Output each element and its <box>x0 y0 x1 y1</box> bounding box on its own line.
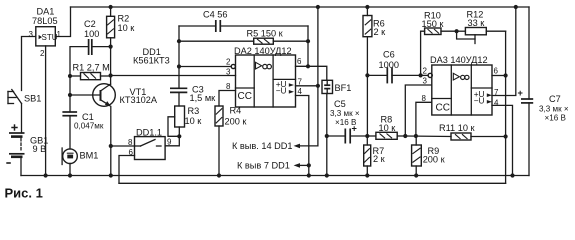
wire BM1 to ground rail <box>69 164 71 176</box>
junction R3 bottom / wiper / DD1.1 pin9 <box>177 134 181 138</box>
svg-text:6: 6 <box>494 67 499 76</box>
junction R9 at ground rail <box>414 173 418 177</box>
junction R4 at ground rail <box>217 173 221 177</box>
svg-text:3: 3 <box>226 68 231 77</box>
junction DA2 pin2 on C4-C3 column <box>177 64 181 68</box>
capacitor C5 3,3uF <box>327 99 368 144</box>
svg-text:DD1.1: DD1.1 <box>136 128 162 138</box>
svg-text:C7: C7 <box>549 94 561 104</box>
wire DD1.1 pin9 to R3 bottom <box>165 136 179 146</box>
wire C4/C3 column <box>178 26 180 88</box>
svg-text:×16 В: ×16 В <box>545 114 566 123</box>
svg-text:C6: C6 <box>383 50 395 60</box>
capacitor C1 0,047uF <box>62 112 103 149</box>
svg-text:DA1: DA1 <box>37 7 55 17</box>
svg-text:100: 100 <box>84 29 99 39</box>
svg-text:К выв 7 DD1: К выв 7 DD1 <box>237 160 290 170</box>
resistor R5 150k <box>179 29 308 45</box>
junction BM1 at ground rail <box>68 173 72 177</box>
svg-text:R4: R4 <box>230 106 242 116</box>
svg-text:33 к: 33 к <box>468 18 486 28</box>
wire DA1 pin3 to SB1 <box>22 37 36 91</box>
svg-text:9 В: 9 В <box>33 144 47 154</box>
resistor R2 10k <box>107 7 136 47</box>
svg-text:3: 3 <box>423 77 428 86</box>
junction R1 left / base column <box>68 74 72 78</box>
wire ground rail <box>21 175 529 177</box>
svg-text:КТ3102А: КТ3102А <box>120 95 158 105</box>
svg-text:2: 2 <box>226 58 231 67</box>
svg-text:1,5 мк: 1,5 мк <box>190 93 217 103</box>
svg-text:×16 В: ×16 В <box>335 118 356 127</box>
wire DA2 pin4 down <box>296 96 309 176</box>
svg-text:CC: CC <box>436 103 450 114</box>
resistor R8 10k <box>367 115 405 140</box>
capacitor C2 100 <box>84 19 111 55</box>
svg-text:150 к: 150 к <box>422 19 445 29</box>
wire DA2 pin6 output <box>296 66 327 80</box>
junction DA2 pin6 output / feedback column <box>306 64 310 68</box>
wire DA3 pin2 column <box>421 31 425 75</box>
wire control line bottom <box>119 182 506 184</box>
capacitor C7 3,3uF <box>518 7 569 176</box>
svg-text:10 к: 10 к <box>185 116 203 126</box>
junction C2 right / R2 bottom <box>109 45 113 49</box>
wire top +5V rail <box>71 6 530 8</box>
junction R11 right on output column <box>504 134 508 138</box>
wire C4/R5 right column to output <box>307 26 309 66</box>
junction R1 right / VT1 collector / DA2 pin3 wire <box>109 73 113 77</box>
op-amp DA3 140UD12 <box>422 55 500 115</box>
svg-text:2 к: 2 к <box>373 154 386 164</box>
wire DA3 pin4 to ground <box>492 105 513 175</box>
svg-text:R5 150 к: R5 150 к <box>247 29 284 39</box>
svg-text:6: 6 <box>297 57 302 66</box>
wire DA1 pin1 to rail <box>55 7 70 37</box>
svg-text:R11 10 к: R11 10 к <box>439 123 475 133</box>
svg-text:8: 8 <box>422 94 427 103</box>
junction DA1 pin2 at ground rail <box>44 173 48 177</box>
wire collector column <box>110 47 112 85</box>
junction DA2 pin4 at ground rail <box>307 173 311 177</box>
svg-text:200 к: 200 к <box>423 154 446 164</box>
junction VT1 emitter at ground rail <box>109 173 113 177</box>
microphone BM1 <box>62 148 98 165</box>
svg-text:200 к: 200 к <box>225 117 248 127</box>
junction R6 top at +5V rail <box>365 5 369 9</box>
resistor R6 2k <box>363 7 386 136</box>
wire collector to DA2 pin3 <box>111 75 236 77</box>
junction DD1 pin7 arrow branch <box>307 163 311 167</box>
svg-text:+: + <box>518 88 523 98</box>
junction C6 left on R6 column <box>365 73 369 77</box>
battery GB1 9V <box>6 124 48 163</box>
capacitor C6 1000 <box>367 50 420 84</box>
junction R2 top at +5V rail <box>109 5 113 9</box>
trimmer R3 10k <box>168 106 202 136</box>
capacitor C4 56 <box>179 10 308 33</box>
junction R8 right / DA3 pin3 riser <box>403 134 407 138</box>
svg-text:C5: C5 <box>334 99 346 109</box>
junction R9 top / DA3 pin8 riser <box>414 134 418 138</box>
svg-text:R1 2,7 М: R1 2,7 М <box>73 63 110 73</box>
wire DA3 pin3 riser <box>405 85 432 136</box>
svg-text:3: 3 <box>29 30 34 39</box>
svg-text:10 к: 10 к <box>379 123 397 133</box>
junction R7 at ground rail <box>365 173 369 177</box>
pushbutton SB1 <box>8 90 41 104</box>
svg-text:BM1: BM1 <box>80 151 99 161</box>
wire DD1.1 pin8 to emitter/ground <box>111 145 135 147</box>
svg-text:78L05: 78L05 <box>32 16 58 26</box>
svg-text:DA2 140УД12: DA2 140УД12 <box>234 46 292 56</box>
wire DA3 pin6 <box>492 75 506 77</box>
wire DA3 pin7 to rail <box>492 7 516 96</box>
junction DD1.1 pin8 on emitter column <box>109 144 113 148</box>
wire node row to R11 <box>405 135 451 138</box>
resistor R9 200k <box>412 136 446 176</box>
junction DA3 pin6 on output column <box>504 73 508 77</box>
junction DA2 pin7 at supply column <box>316 84 320 88</box>
wire SB1 to GB1 <box>21 104 23 134</box>
svg-text:Рис. 1: Рис. 1 <box>5 186 43 201</box>
svg-text:1000: 1000 <box>379 60 399 70</box>
svg-text:C4 56: C4 56 <box>203 10 228 20</box>
junction BF1/C5 column at ground rail <box>325 173 329 177</box>
svg-text:К561КТ3: К561КТ3 <box>133 56 170 66</box>
svg-text:SB1: SB1 <box>24 94 41 104</box>
junction DA2 supply column at +5V rail <box>316 5 320 9</box>
svg-text:4: 4 <box>494 99 499 108</box>
wire DD1.1 pin6 control line down <box>119 156 135 184</box>
transistor VT1 KT3102A <box>70 84 158 107</box>
label DD1 K561KT3 <box>133 47 170 66</box>
analog switch DD1.1 <box>128 128 172 160</box>
capacitor C3 1,5uF <box>170 85 216 107</box>
svg-text:BF1: BF1 <box>335 83 352 93</box>
junction DA3 pin7 column at +5V rail <box>514 5 518 9</box>
voltage regulator DA1 78L05 <box>29 7 62 59</box>
svg-text:−U: −U <box>474 95 485 105</box>
svg-text:3,3 мк ×: 3,3 мк × <box>539 105 569 114</box>
junction C6 right / DA3 pin2 column <box>419 73 423 77</box>
junction BF1 bottom / C5 left <box>325 134 329 138</box>
svg-text:10 к: 10 к <box>118 23 136 33</box>
svg-text:3,3 мк ×: 3,3 мк × <box>330 109 360 118</box>
svg-text:R2: R2 <box>118 14 130 24</box>
wire emitter to ground rail <box>110 107 112 176</box>
svg-text:0,047мк: 0,047мк <box>74 121 104 130</box>
resistor R1 2,7M <box>70 63 111 80</box>
svg-text:2: 2 <box>40 49 45 58</box>
svg-text:1: 1 <box>57 30 62 39</box>
junction VT1 base / base column <box>68 93 72 97</box>
node X junction C5 right / R6 bottom / R7 top / R8 left <box>365 134 369 138</box>
wire DA3 output column <box>505 31 507 183</box>
trimmer R12 33k <box>457 10 506 44</box>
junction R5 right / C4 right column <box>306 39 310 43</box>
svg-text:CC: CC <box>238 91 252 102</box>
svg-text:−U: −U <box>276 85 287 95</box>
sound emitter BF1 <box>322 80 351 93</box>
wire base column: C2 corner down to C1 <box>70 47 89 112</box>
wire GB1 to ground rail <box>20 157 22 176</box>
svg-text:К выв. 14 DD1: К выв. 14 DD1 <box>232 141 293 151</box>
junction R10 right / R12 left / wiper strap <box>455 29 459 33</box>
svg-text:2 к: 2 к <box>374 27 387 37</box>
resistor R10 150k <box>422 11 457 35</box>
junction R5 left on C4-C3 column <box>177 39 181 43</box>
junction DA3 pin4 at ground rail <box>510 173 514 177</box>
svg-text:C2: C2 <box>84 19 96 29</box>
svg-text:R3: R3 <box>188 106 200 116</box>
svg-text:DA3 140УД12: DA3 140УД12 <box>430 55 488 65</box>
svg-text:9: 9 <box>167 138 172 147</box>
svg-text:STU: STU <box>42 33 58 42</box>
resistor R11 10k <box>439 123 506 140</box>
svg-text:2: 2 <box>423 67 428 76</box>
wire DA3 pin8 riser <box>416 102 432 136</box>
wire +5V column to DD1 pin14 <box>300 7 318 146</box>
resistor R7 2k <box>364 136 386 176</box>
wire DA1 pin2 to ground rail <box>45 46 47 176</box>
svg-text:8: 8 <box>226 82 231 91</box>
wire DA2 pin7 <box>296 85 318 87</box>
wire BF1 to ground <box>326 94 328 176</box>
svg-text:4: 4 <box>298 87 303 96</box>
wire DA2 pin8 to R4 <box>219 91 236 107</box>
wire to DD1 pin7 <box>300 164 309 166</box>
resistor R4 200k <box>215 106 247 176</box>
wire DA2 pin2 <box>179 66 231 68</box>
op-amp DA2 140UD12 <box>226 46 303 107</box>
